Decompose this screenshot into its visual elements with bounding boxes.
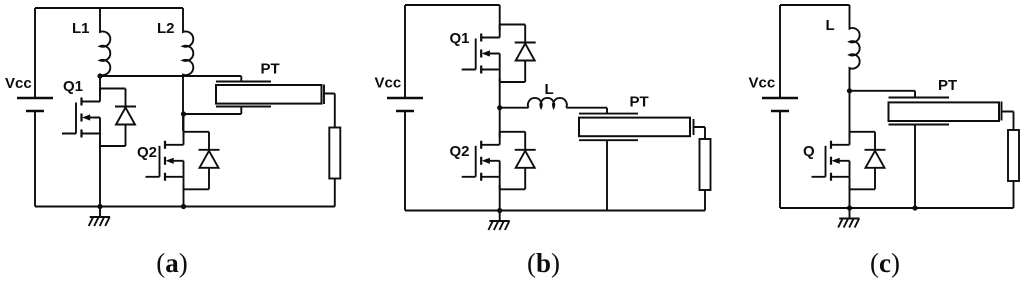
svg-text:PT: PT bbox=[938, 77, 957, 94]
svg-text:L: L bbox=[545, 81, 554, 98]
svg-text:L1: L1 bbox=[72, 20, 90, 37]
svg-text:PT: PT bbox=[630, 94, 649, 111]
svg-text:Vcc: Vcc bbox=[5, 75, 32, 92]
svg-text:Q: Q bbox=[803, 143, 815, 160]
svg-text:Q2: Q2 bbox=[450, 143, 470, 160]
svg-text:PT: PT bbox=[261, 61, 280, 78]
svg-text:L: L bbox=[826, 17, 835, 34]
svg-text:(c): (c) bbox=[870, 248, 900, 278]
svg-text:(a): (a) bbox=[156, 248, 188, 278]
svg-text:Vcc: Vcc bbox=[375, 74, 402, 91]
svg-text:Vcc: Vcc bbox=[749, 74, 776, 91]
svg-text:(b): (b) bbox=[527, 248, 560, 278]
svg-text:L2: L2 bbox=[157, 20, 175, 37]
svg-text:Q1: Q1 bbox=[63, 78, 83, 95]
svg-text:Q1: Q1 bbox=[450, 30, 470, 47]
svg-text:Q2: Q2 bbox=[137, 144, 157, 161]
